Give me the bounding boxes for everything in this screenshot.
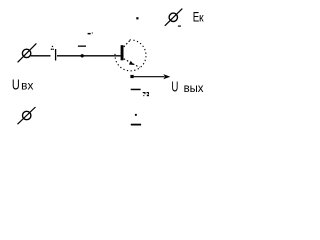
svg-text:вх: вх	[21, 80, 33, 93]
svg-text:U: U	[12, 78, 20, 94]
svg-text:вых: вых	[184, 81, 204, 95]
svg-text:U: U	[171, 79, 178, 95]
svg-text:к: к	[199, 11, 204, 25]
